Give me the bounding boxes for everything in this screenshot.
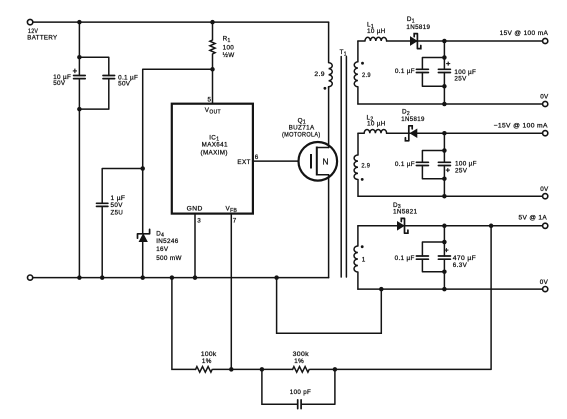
terminal -15V — [543, 131, 548, 136]
svg-text:0V: 0V — [540, 93, 549, 100]
label 0V rail 1 — [540, 93, 549, 100]
svg-text:2.9: 2.9 — [361, 162, 370, 169]
node cap branch bottom — [77, 107, 82, 112]
svg-text:10 µH: 10 µH — [367, 28, 386, 35]
node cap split 2 — [442, 148, 447, 153]
resistor 100k 1% — [196, 351, 218, 372]
capacitor 100uF 25V section 2 — [438, 161, 476, 175]
wire Vout net to left column — [143, 69, 213, 277]
capacitor 1uF 50V Z5U — [97, 195, 126, 217]
transformer secondary winding 3 (1) — [354, 226, 366, 289]
svg-text:1N5819: 1N5819 — [406, 24, 430, 31]
wire 15V rail — [387, 40, 543, 42]
svg-text:6.3V: 6.3V — [453, 262, 468, 269]
wire 0V rail 2 — [358, 195, 543, 197]
node ground D4 — [140, 275, 145, 280]
capacitor 0.1uF section 1 — [395, 68, 429, 75]
inductor L1 10uH — [358, 22, 387, 41]
svg-text:BATTERY: BATTERY — [27, 35, 58, 42]
svg-text:0V: 0V — [540, 186, 549, 193]
wire 0V rail 3 — [358, 288, 543, 290]
node 5V junction — [442, 224, 447, 229]
diode D3 1N5821 — [393, 202, 418, 233]
wire feedback middle — [213, 368, 292, 370]
wire feedback left leg — [172, 278, 196, 370]
svg-text:3: 3 — [197, 218, 201, 225]
wire 5V rail — [358, 225, 543, 227]
node cap join 2 — [442, 176, 447, 181]
svg-text:0.1 µF: 0.1 µF — [395, 68, 415, 75]
svg-text:Z5U: Z5U — [111, 209, 124, 216]
primary phase dot — [324, 87, 327, 90]
diode D2 1N5819 — [401, 109, 425, 141]
svg-text:50V: 50V — [53, 80, 66, 87]
secondary 1 phase dot — [361, 62, 364, 65]
diode D1 1N5819 — [406, 16, 430, 49]
svg-text:1 µF: 1 µF — [111, 195, 126, 202]
op-amp IC1 MAX641 box — [172, 104, 253, 214]
node cap join 1 — [442, 84, 447, 89]
node VFB divider — [229, 367, 234, 372]
pin 7 VFB wire — [231, 214, 237, 370]
transistor Q1 BUZ71A MOSFET — [282, 117, 337, 180]
terminal 0V rail 2 — [543, 194, 548, 199]
svg-text:(MOTOROLA): (MOTOROLA) — [282, 132, 321, 139]
capacitor 0.1uF section 3 — [395, 255, 429, 262]
svg-text:50V: 50V — [111, 202, 124, 209]
transformer secondary winding 2 (2.9) — [354, 133, 370, 196]
label 0V rail 3 — [540, 279, 549, 286]
svg-text:100 µF: 100 µF — [455, 161, 477, 168]
resistor R1 100 1/2W — [210, 22, 235, 69]
svg-text:500 mW: 500 mW — [156, 255, 182, 262]
svg-text:+: + — [73, 67, 78, 76]
svg-text:100: 100 — [223, 44, 235, 51]
label -15V output — [494, 123, 549, 130]
svg-text:½W: ½W — [223, 51, 235, 59]
node 0V rail 2 — [442, 194, 447, 199]
ground terminal — [28, 275, 33, 280]
secondary 3 phase dot — [361, 245, 364, 248]
transformer T1 core — [341, 57, 346, 278]
terminal 5V — [543, 223, 548, 228]
resistor 300k 1% — [293, 351, 310, 372]
capacitor 100pF — [262, 369, 335, 408]
svg-text:GND: GND — [187, 206, 203, 213]
svg-text:(MAXIM): (MAXIM) — [201, 149, 228, 156]
svg-text:1: 1 — [362, 257, 366, 264]
node cap join 3 — [442, 269, 447, 274]
terminal 0V rail 1 — [543, 101, 548, 106]
node cap split 3 — [442, 240, 447, 245]
wire drain to primary — [328, 87, 330, 148]
svg-text:1N5819: 1N5819 — [401, 116, 425, 123]
label 0V rail 2 — [540, 186, 549, 193]
svg-text:BUZ71A: BUZ71A — [289, 125, 315, 132]
pin 6 EXT wire to gate — [253, 154, 310, 161]
node ground 100k — [170, 275, 175, 280]
svg-text:N: N — [323, 157, 329, 167]
node ground input caps — [77, 275, 82, 280]
svg-text:100k: 100k — [201, 351, 217, 358]
node 0V rail 1 — [442, 102, 447, 107]
svg-text:+: + — [446, 59, 451, 68]
node ground pin3 — [193, 275, 198, 280]
svg-text:15V @ 100 mA: 15V @ 100 mA — [500, 30, 549, 37]
wire feedback right leg to 5V — [310, 226, 491, 370]
svg-text:7: 7 — [233, 218, 237, 225]
wire 1uF branch — [102, 169, 143, 278]
svg-text:0.1 µF: 0.1 µF — [395, 255, 415, 262]
node 5V feedback tap — [489, 224, 494, 229]
node top rail to R1 — [210, 20, 215, 25]
svg-text:2.9: 2.9 — [362, 72, 371, 79]
zener diode D4 1N5246 — [138, 229, 182, 262]
node 15V junction — [442, 39, 447, 44]
secondary 2 phase dot — [361, 178, 364, 181]
svg-text:5V @ 1A: 5V @ 1A — [519, 215, 548, 222]
node 0V rail 3 ground link — [379, 287, 384, 292]
transformer secondary winding 1 (2.9) — [354, 41, 371, 104]
capacitor 0.1uF 50V input — [103, 74, 138, 87]
svg-text:470 µF: 470 µF — [453, 255, 476, 262]
terminal 15V — [543, 38, 548, 43]
svg-text:16V: 16V — [156, 246, 169, 253]
label 15V output — [500, 30, 549, 37]
svg-text:EXT: EXT — [237, 159, 250, 166]
capacitor 470uF 6.3V section 3 — [438, 246, 476, 270]
capacitor 10uF 50V input — [53, 67, 85, 88]
wire ground rail — [33, 277, 329, 279]
node 1uF tap — [140, 166, 145, 171]
label 5V output — [519, 215, 548, 222]
svg-text:50V: 50V — [118, 81, 131, 88]
node ground link to 0V rail 3 — [274, 275, 279, 280]
wire 0V rail 1 — [358, 103, 543, 105]
wire top rail +12V — [33, 21, 329, 23]
node 100pF right — [333, 367, 338, 372]
svg-text:6: 6 — [255, 154, 259, 161]
wire -15V rail — [387, 132, 543, 134]
label T1 — [340, 49, 347, 57]
svg-text:MAX641: MAX641 — [202, 142, 228, 149]
svg-text:0V: 0V — [540, 279, 549, 286]
svg-text:10 µH: 10 µH — [367, 121, 386, 128]
terminal 0V rail 3 — [543, 287, 548, 292]
node -15V junction — [442, 131, 447, 136]
wire filter section 2 — [422, 133, 444, 196]
svg-text:0.1 µF: 0.1 µF — [395, 161, 415, 168]
capacitor 100uF 25V section 1 — [438, 59, 476, 82]
svg-text:300k: 300k — [293, 351, 310, 358]
svg-text:25V: 25V — [455, 168, 468, 175]
node 0V rail 3 — [442, 287, 447, 292]
wire source to ground rail — [328, 175, 330, 278]
wire ground link U shape — [277, 278, 382, 334]
svg-text:1%: 1% — [294, 358, 304, 365]
svg-text:−15V @ 100 mA: −15V @ 100 mA — [494, 123, 549, 130]
pin 5 Vout — [208, 69, 213, 103]
node top rail to input caps — [77, 20, 82, 25]
node cap branch top — [77, 55, 82, 60]
battery positive terminal — [27, 19, 32, 24]
wire filter section 3 — [422, 226, 444, 289]
pin 3 GND wire — [195, 214, 201, 278]
node cap split 1 — [442, 55, 447, 60]
svg-text:+: + — [444, 246, 449, 255]
transformer T1 primary winding 2.9 — [314, 22, 332, 88]
svg-text:+: + — [446, 166, 451, 175]
node ground 1uF — [100, 275, 105, 280]
svg-text:2.9: 2.9 — [314, 71, 325, 78]
node R1 bottom / Vout net — [210, 67, 215, 72]
label 12V BATTERY — [27, 28, 58, 41]
svg-text:25V: 25V — [454, 75, 467, 82]
inductor L2 10uH — [358, 114, 387, 133]
node 100pF left — [260, 367, 265, 372]
svg-text:100 pF: 100 pF — [290, 389, 311, 396]
capacitor 0.1uF section 2 — [395, 161, 429, 168]
svg-text:1%: 1% — [202, 358, 212, 365]
svg-text:IN5246: IN5246 — [156, 238, 179, 245]
wire filter section 1 — [422, 41, 444, 104]
wire input cap branch — [79, 22, 108, 278]
svg-text:1N5821: 1N5821 — [393, 209, 418, 216]
svg-text:5: 5 — [208, 97, 212, 104]
